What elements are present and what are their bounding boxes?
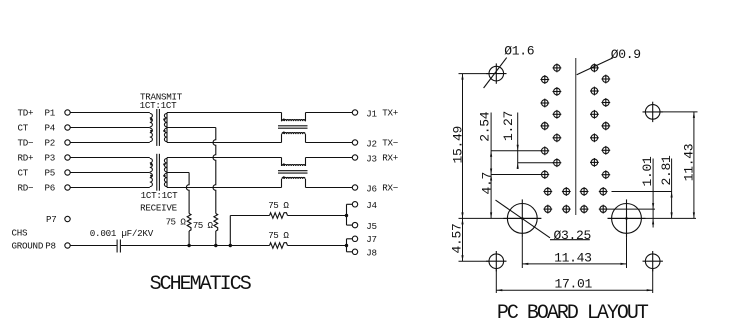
svg-text:SCHEMATICS: SCHEMATICS [150, 273, 252, 296]
svg-text:1CT:1CT: 1CT:1CT [140, 100, 178, 111]
svg-text:J7: J7 [366, 234, 377, 245]
wire TX+ (T1 sec top to choke) [167, 112, 282, 114]
choke L1 phase dot upper [283, 119, 285, 121]
svg-text:4.7: 4.7 [479, 172, 494, 195]
svg-text:1CT:1CT: 1CT:1CT [141, 190, 179, 201]
dimension 2.81 extension line [612, 191, 672, 193]
svg-text:RD−: RD− [18, 183, 34, 194]
svg-text:RX+: RX+ [382, 153, 398, 164]
leader dia 0.9 [577, 47, 641, 75]
wire branch up to 75 ohm line [229, 216, 231, 246]
svg-text:17.01: 17.01 [555, 276, 593, 291]
wire ground bus (capacitor to J7/J8 fork) [121, 245, 347, 247]
dimension 4.57 arrows [461, 218, 463, 261]
dimension 1.01 extension lines [608, 208, 656, 210]
pin J6 terminal [352, 185, 357, 190]
dimension 4.7 arrows [490, 175, 492, 219]
dimension 15.49 extension line top [459, 73, 490, 75]
svg-text:J4: J4 [366, 200, 377, 211]
wire P5 row [70, 172, 150, 174]
svg-text:P1: P1 [45, 108, 56, 119]
dimension line 1.27 [517, 113, 519, 170]
pin P4 terminal [65, 125, 70, 130]
choke L1 phase dot lower [283, 132, 285, 134]
svg-text:4.57: 4.57 [450, 223, 465, 253]
dimension 17.01 arrows [496, 289, 652, 291]
wire P4 row [70, 127, 150, 129]
pin P6 terminal [65, 185, 70, 190]
pin J2 label [366, 138, 398, 150]
choke L2 upper winding (RX) [282, 158, 306, 167]
svg-text:75 Ω: 75 Ω [193, 220, 214, 231]
svg-text:RECEIVE: RECEIVE [140, 203, 178, 214]
resistor 75 ohm (lower, on ground bus) [270, 243, 288, 249]
junction upper-75 branch on ground bus [229, 244, 232, 247]
choke L1 core [278, 126, 308, 128]
svg-text:Ø0.9: Ø0.9 [611, 47, 641, 62]
pcb mounting hole bottom-left (1.6mm) [486, 251, 506, 271]
pcb pin holes right inner column [590, 64, 599, 167]
dimension 1.27 arrows [517, 145, 519, 169]
dimension 17.01 extension lines [496, 269, 652, 293]
pin P5 label CT [18, 168, 56, 179]
svg-text:Ø1.6: Ø1.6 [504, 44, 534, 59]
svg-text:PC BOARD LAYOUT: PC BOARD LAYOUT [497, 302, 649, 324]
pin P4 label CT [18, 123, 56, 134]
pcb post hole left (3.25mm) [503, 199, 541, 237]
svg-text:J1: J1 [366, 109, 377, 120]
svg-text:P5: P5 [45, 168, 56, 179]
svg-text:11.43: 11.43 [554, 251, 592, 266]
svg-text:P8: P8 [45, 240, 56, 251]
pcb pin holes left inner column [553, 64, 562, 168]
wire RX- (T2 sec bottom to choke) [167, 187, 282, 189]
leader dia 1.6 [484, 44, 535, 88]
svg-text:J3: J3 [366, 154, 377, 165]
resistor 75 ohm (T1 CT termination) [214, 214, 218, 232]
dimension 15.49 arrows [461, 74, 463, 219]
pin P5 terminal [65, 170, 70, 175]
wire choke to J1 [306, 112, 353, 114]
wire J7/J8 fork [347, 239, 353, 252]
svg-text:J5: J5 [366, 221, 377, 232]
wire upper 75 ohm line [230, 215, 346, 217]
transformer T1 core [157, 109, 160, 146]
transformer T1 label TRANSMIT [140, 92, 183, 112]
dimension line 2.54/4.7 [490, 113, 492, 219]
pin J4 terminal [352, 202, 357, 207]
svg-text:P3: P3 [45, 153, 56, 164]
svg-text:P2: P2 [45, 138, 56, 149]
pcb post hole right (3.25mm) [608, 199, 646, 237]
transformer T1 primary winding [150, 113, 153, 141]
dimension 1.27 extension line [518, 162, 554, 164]
svg-text:TD+: TD+ [18, 108, 34, 119]
wire TX- (T1 sec bottom to choke) [167, 142, 282, 144]
svg-text:CHS: CHS [12, 228, 29, 239]
pin P1 label TD+ [18, 108, 56, 119]
dimension line 15.49/4.57 [462, 74, 464, 262]
junction on ground bus 2 [187, 244, 190, 247]
svg-text:TX−: TX− [382, 138, 398, 149]
pin J3 label [366, 153, 398, 165]
pcb mounting hole top-left (1.6mm) [486, 63, 506, 83]
pin J2 terminal [352, 140, 357, 145]
svg-text:GROUND: GROUND [12, 240, 44, 251]
transformer T1 secondary phase dots [163, 118, 165, 132]
wire resistor to ground [215, 231, 217, 246]
wire T2 CT drop with hop (crosses row P6) [186, 173, 189, 214]
svg-text:2.54: 2.54 [478, 111, 493, 142]
wire choke to J3 [306, 157, 353, 159]
transformer T2 secondary phase dots [163, 163, 165, 177]
dimension line 11.43 right [693, 112, 695, 218]
choke L2 phase dot upper [283, 163, 285, 165]
svg-text:RD+: RD+ [18, 153, 34, 164]
resistor 75 ohm (T2 CT termination) [187, 214, 191, 232]
wire T1 secondary center tap [167, 127, 216, 129]
pin P6 label RD− [18, 183, 56, 194]
pcb mounting hole bottom-right (1.6mm) [643, 251, 663, 271]
svg-text:11.43: 11.43 [681, 144, 696, 182]
junction J7/J8 fork [345, 244, 348, 247]
wire resistor to ground 2 [188, 231, 190, 246]
pcb mounting hole top-right (1.6mm) [643, 102, 663, 122]
transformer T2 label RECEIVE [140, 190, 178, 213]
pin J5 terminal [352, 222, 357, 227]
transformer T2 core [157, 154, 160, 191]
svg-text:J2: J2 [366, 139, 377, 150]
svg-text:0.001 µF/2KV: 0.001 µF/2KV [90, 228, 154, 239]
pin J1 label [366, 108, 398, 120]
svg-text:1.27: 1.27 [501, 111, 516, 141]
wire choke to J6 [306, 187, 353, 189]
choke L2 lower winding [282, 177, 306, 187]
resistor 75 ohm (upper) [270, 213, 288, 219]
svg-text:75 Ω: 75 Ω [166, 217, 187, 228]
dimension 1.01 arrows [652, 203, 654, 224]
pcb centerline [575, 58, 577, 215]
extension line bottom-left hole [459, 260, 489, 262]
transformer T2 primary winding [150, 158, 153, 186]
transformer T2 primary phase dots [150, 163, 152, 177]
svg-text:CT: CT [18, 168, 29, 179]
pin J7 terminal [352, 236, 357, 241]
pin P8 label CHS GROUND [12, 228, 56, 252]
wire P6 row [70, 187, 150, 189]
pin J6 label [366, 183, 398, 195]
svg-text:P4: P4 [45, 123, 56, 134]
dimension 2.81 arrows [671, 192, 673, 219]
svg-text:1.01: 1.01 [640, 156, 655, 187]
junction on ground bus [214, 244, 217, 247]
svg-text:P6: P6 [45, 183, 56, 194]
pin P2 terminal [65, 140, 70, 145]
choke L1 lower winding [282, 133, 306, 143]
svg-text:75 Ω: 75 Ω [268, 230, 289, 241]
pin P3 terminal [65, 155, 70, 160]
choke L2 phase dot lower [283, 176, 285, 178]
extension line board-center level [459, 217, 697, 219]
capacitor C1 0.001uF/2KV [117, 240, 120, 253]
choke L2 core [278, 171, 308, 173]
svg-text:J8: J8 [366, 247, 377, 258]
wire RX+ (T2 sec top to choke) [167, 157, 282, 159]
svg-text:CT: CT [18, 123, 29, 134]
pcb J-pin holes 2x4 grid [543, 187, 607, 213]
leader dia 3.25 [496, 200, 592, 243]
pin J1 terminal [352, 110, 357, 115]
wire P8 to capacitor [70, 245, 116, 247]
svg-text:J6: J6 [366, 184, 377, 195]
pcb pin holes left outer column [540, 75, 549, 179]
transformer T2 secondary winding [164, 158, 167, 188]
dimension 11.43R arrows [693, 112, 695, 218]
junction J4/J5 fork [345, 214, 348, 217]
dimension line 2.81 [671, 159, 673, 219]
wire J4/J5 fork [347, 204, 353, 225]
dimension 2.54 extension lines [491, 151, 541, 175]
transformer T1 secondary winding [164, 113, 167, 143]
pin J8 terminal [352, 249, 357, 254]
dimension 11.43 bottom arrows [522, 263, 626, 265]
pin P3 label RD+ [18, 153, 56, 164]
svg-text:P7: P7 [46, 214, 57, 225]
svg-text:2.81: 2.81 [659, 155, 674, 186]
wire choke to J2 [306, 142, 353, 144]
pcb pin holes right outer column [601, 75, 610, 180]
choke L1 upper winding (TX) [282, 113, 306, 122]
transformer T1 primary phase dots [150, 118, 152, 132]
pin P7 terminal [65, 216, 70, 221]
wire P2 row [70, 142, 150, 144]
wire P3 row [70, 157, 150, 159]
wire center-tap drop with hops (crosses rows P2,P3,P6) [213, 128, 216, 214]
dimension 2.54 arrows [490, 151, 492, 175]
dimension line 11.43 bottom [522, 263, 626, 265]
svg-text:RX−: RX− [382, 183, 398, 194]
svg-text:15.49: 15.49 [451, 126, 466, 164]
pin P2 label TD− [18, 138, 56, 149]
dimension line 17.01 [496, 289, 652, 291]
dimension 11.43R extension line [660, 111, 697, 113]
svg-text:Ø3.25: Ø3.25 [554, 228, 592, 243]
svg-text:75 Ω: 75 Ω [268, 200, 289, 211]
pin J3 terminal [352, 155, 357, 160]
pin P8 terminal [65, 243, 70, 248]
wire P1 row [70, 112, 150, 114]
dimension line 1.01 [652, 159, 654, 228]
dimension 11.43 bottom extension lines [522, 237, 626, 268]
svg-text:TX+: TX+ [382, 108, 398, 119]
pin P1 terminal [65, 110, 70, 115]
svg-text:TD−: TD− [18, 138, 34, 149]
wire T2 secondary center tap [167, 172, 189, 174]
